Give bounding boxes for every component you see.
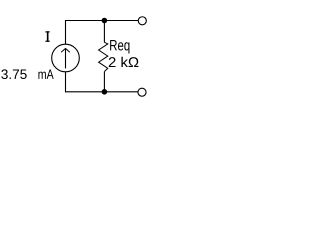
wire left vertical top: [65, 20, 67, 45]
label 3.75: [1, 69, 26, 79]
label 2 kOhm: [109, 57, 139, 67]
label Req: [110, 40, 129, 54]
resistor Req: [99, 21, 108, 92]
label mA: [38, 70, 53, 79]
wire bottom horizontal: [65, 91, 138, 93]
terminal top open circle: [138, 17, 146, 25]
wire left vertical bottom: [65, 72, 67, 93]
node top junction dot: [102, 18, 108, 24]
node bottom junction dot: [102, 89, 108, 95]
terminal bottom open circle: [138, 88, 146, 96]
label I (serif capital): [45, 31, 49, 42]
wire top horizontal: [65, 20, 138, 22]
current source I1: [52, 44, 80, 72]
